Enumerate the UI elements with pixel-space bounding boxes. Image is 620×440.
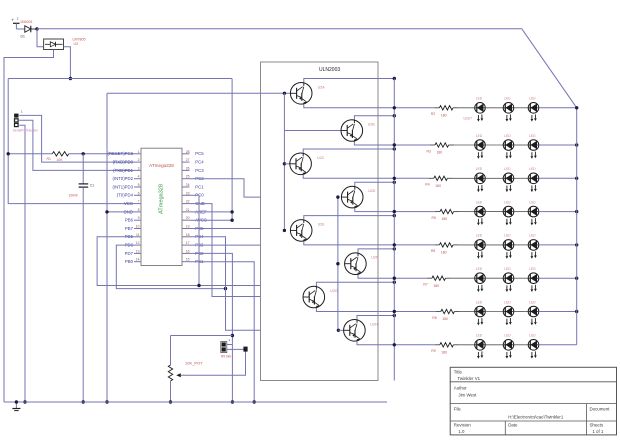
svg-text:ATmega328: ATmega328 (159, 184, 165, 214)
LED (row 4 col 3) (528, 200, 539, 225)
resistor R6 180 row5 (431, 243, 459, 255)
svg-text:8: 8 (138, 208, 140, 212)
wire reset to C1 (82, 154, 84, 184)
svg-text:10K: 10K (57, 158, 64, 162)
junction collector U2A on bus (393, 77, 396, 80)
wire pot top (171, 335, 233, 337)
junction row2 on collector bus (393, 143, 396, 146)
junction regulator output on +5V bus (69, 77, 72, 80)
transistor U2H darlington (344, 320, 378, 342)
svg-text:4: 4 (138, 175, 140, 179)
wire U2E collector to bus (304, 216, 395, 220)
svg-text:11: 11 (136, 233, 140, 237)
svg-text:LED: LED (529, 97, 536, 101)
svg-text:20: 20 (186, 216, 190, 220)
wire PB4 pin18 down to U2H base (190, 237, 344, 330)
wire U2A emitter to resistor (304, 104, 435, 108)
LED (row 7 col 3) (528, 300, 539, 325)
junction PB1 wire on ground bus (253, 400, 256, 403)
svg-text:ATmega328: ATmega328 (149, 163, 174, 168)
svg-text:10K_POT: 10K_POT (185, 361, 203, 366)
wire U2H base stub (338, 329, 343, 331)
svg-text:U2G: U2G (330, 289, 338, 293)
wire reset line (8, 153, 134, 155)
junction U2D base (336, 195, 339, 198)
wire collector bus vertical (393, 79, 395, 381)
svg-text:R2: R2 (431, 112, 435, 116)
svg-text:Author: Author (454, 386, 467, 391)
junction collector U2G on bus (393, 281, 396, 284)
svg-text:Twinkler V1: Twinkler V1 (457, 376, 480, 381)
connector SerialPortHeader (14, 110, 23, 127)
svg-text:2: 2 (138, 158, 140, 162)
LED (row 5 col 3) (528, 234, 539, 259)
svg-text:R1: R1 (47, 157, 51, 161)
svg-text:Title: Title (454, 370, 463, 375)
transistor U2G darlington (303, 286, 338, 308)
svg-text:Sheets: Sheets (590, 423, 604, 428)
wire row5 resistor to LEDs (458, 244, 474, 246)
svg-text:5: 5 (138, 183, 140, 187)
svg-text:LED: LED (476, 167, 483, 171)
potentiometer R8 10K_POT (168, 336, 203, 403)
svg-text:D1: D1 (21, 35, 25, 39)
svg-text:PC5: PC5 (195, 151, 204, 156)
svg-text:14: 14 (136, 258, 140, 262)
svg-text:C1: C1 (90, 183, 94, 187)
wire row6 to +12V bus (539, 277, 577, 279)
junction collector U2B on bus (393, 114, 396, 117)
svg-text:PC1: PC1 (195, 184, 204, 189)
wire vertical x107 U2A base / GND pin8 / ground bus (106, 93, 108, 402)
svg-text:LED: LED (529, 134, 536, 138)
wire row5 to +12V bus (539, 244, 577, 246)
svg-text:26: 26 (186, 166, 190, 170)
wire U2F emitter to resistor (358, 275, 427, 279)
transistor U2A darlington (290, 83, 325, 105)
diode D1 1N4001 (20, 20, 36, 38)
wire U2F collector to bus (358, 249, 394, 253)
transistor U2D darlington (341, 186, 375, 208)
junction PC0 on PD5 staircase (197, 284, 200, 287)
svg-text:LED: LED (476, 200, 483, 204)
wire row8 resistor to LEDs (459, 344, 475, 346)
svg-text:18: 18 (186, 233, 190, 237)
wire U2B base feed (284, 130, 341, 132)
junction ground symbol on bus (15, 400, 18, 403)
svg-text:R5: R5 (432, 216, 436, 220)
svg-text:19: 19 (186, 225, 190, 229)
junction row6 on +12V bus (575, 277, 578, 280)
LED (row 1 col 2) (503, 97, 528, 122)
svg-text:R3: R3 (427, 149, 431, 153)
svg-text:R7: R7 (423, 283, 427, 287)
svg-text:LED: LED (529, 300, 536, 304)
svg-text:1: 1 (138, 150, 140, 154)
svg-text:15: 15 (186, 258, 190, 262)
svg-text:R4: R4 (425, 183, 429, 187)
junction U2F base (336, 262, 339, 265)
wire U2D emitter to resistor (355, 208, 435, 212)
svg-text:LED: LED (504, 334, 511, 338)
junction row8 on collector bus (393, 343, 396, 346)
svg-text:Jim West: Jim West (458, 393, 477, 398)
LED (row 2 col 2) (503, 134, 528, 159)
LED (row 1 col 1) (475, 97, 504, 122)
IC U1 ATmega328 (107, 148, 207, 265)
transistor U2B darlington (341, 120, 375, 142)
svg-text:12: 12 (136, 241, 140, 245)
label SerialPortHeader (13, 129, 39, 133)
svg-text:Date: Date (508, 423, 518, 428)
svg-text:23: 23 (186, 191, 190, 195)
svg-text:10: 10 (136, 225, 140, 229)
wire U2D collector to bus (355, 182, 395, 186)
svg-text:22: 22 (186, 200, 190, 204)
svg-text:LED: LED (504, 234, 511, 238)
wire row1 to +12V bus (539, 107, 577, 109)
LED (row 3 col 2) (503, 167, 528, 192)
svg-text:180: 180 (441, 113, 447, 117)
LED (row 3 col 3) (528, 167, 539, 192)
svg-text:(RXD)PD0: (RXD)PD0 (113, 160, 134, 165)
wire +12V diagonal (522, 29, 577, 108)
svg-text:180: 180 (435, 184, 441, 188)
wire C1 to ground bus (82, 187, 84, 402)
wire row7 resistor to LEDs (460, 311, 475, 313)
svg-text:LED: LED (529, 234, 536, 238)
junction row1 on collector bus (393, 106, 396, 109)
svg-text:LED: LED (476, 334, 483, 338)
battery terminal +12V (12, 17, 20, 30)
wire regulator output to +5V bus (64, 47, 71, 79)
junction reset at +5V drop (7, 152, 10, 155)
wire U2B collector to bus (354, 116, 394, 120)
svg-text:PD7: PD7 (125, 251, 134, 256)
junction U2E base (283, 229, 286, 232)
LED (row 2 col 3) (528, 134, 539, 159)
junction collector U2D on bus (393, 181, 396, 184)
wire AREF pin21 to +5V drop (190, 211, 233, 213)
svg-text:H:\Electronics\cae\Twinkler1: H:\Electronics\cae\Twinkler1 (508, 414, 564, 419)
svg-text:U2A: U2A (318, 85, 326, 89)
svg-text:13: 13 (136, 249, 140, 253)
svg-text:VCC: VCC (124, 201, 133, 206)
wire +12V top rail (37, 28, 522, 30)
wire +5V left drop to VCC pin (8, 79, 134, 204)
junction pot on ground bus (169, 400, 172, 403)
svg-text:1 of 1: 1 of 1 (592, 429, 604, 434)
wire U2A base feed (107, 92, 290, 94)
wire ground bus bottom (4, 401, 387, 403)
wire row2 to +12V bus (539, 144, 577, 146)
svg-text:28: 28 (186, 150, 190, 154)
resistor R4 180 row3 (425, 176, 453, 188)
svg-text:LED: LED (529, 267, 536, 271)
wire U2C base stub (284, 163, 289, 165)
svg-text:ULN2003: ULN2003 (319, 67, 340, 73)
resistor R8 180 row7 (432, 309, 460, 321)
svg-text:180: 180 (442, 217, 448, 221)
junction row4 on collector bus (393, 210, 396, 213)
wire U2G emitter to resistor (316, 308, 435, 312)
LED (row 7 col 1) (475, 300, 504, 325)
wire serial pin2 to TXD/PD1 (19, 120, 134, 170)
wire row1 resistor to LEDs (458, 107, 474, 109)
wire PB1 pin15 down to ground bus (190, 262, 255, 402)
wire PC2 pin25 to U2D base (190, 179, 348, 197)
svg-text:LED7: LED7 (464, 117, 473, 121)
junction row2 on +12V bus (575, 143, 578, 146)
svg-text:9: 9 (138, 216, 140, 220)
svg-text:Revision: Revision (454, 423, 471, 428)
svg-text:(INT1)PD3: (INT1)PD3 (112, 184, 133, 189)
LED (row 5 col 1) (475, 234, 504, 259)
LED (row 6 col 3) (528, 267, 539, 292)
wire U2H collector to bus (357, 316, 394, 320)
svg-text:100nF: 100nF (69, 194, 79, 198)
svg-text:180: 180 (441, 251, 447, 255)
resistor R3 180 row2 (427, 143, 455, 155)
junction row7 on +12V bus (575, 310, 578, 313)
wire +5V horizontal bus (8, 78, 232, 80)
wire pot wiper (181, 352, 246, 376)
wire row2 resistor to LEDs (454, 144, 475, 146)
label LED7 row1 (464, 117, 473, 121)
LED (row 8 col 1) (475, 334, 504, 359)
svg-text:LED: LED (504, 134, 511, 138)
junction row3 on +12V bus (575, 177, 578, 180)
junction PB2 wire on ground bus (231, 400, 234, 403)
wire GND pin22 down to U2G base (190, 204, 304, 297)
junction +12V node (35, 27, 38, 30)
svg-text:180: 180 (442, 317, 448, 321)
svg-text:LED: LED (504, 167, 511, 171)
wire U2C emitter to resistor (303, 175, 429, 179)
svg-text:R9: R9 (431, 349, 435, 353)
svg-text:25: 25 (186, 175, 190, 179)
LED (row 5 col 2) (503, 234, 528, 259)
junction collector U2C on bus (393, 147, 396, 150)
ground symbol (12, 402, 20, 411)
wire GND pin8 stub (107, 211, 134, 213)
resistor R2 180 row1 (431, 106, 459, 118)
LED (row 8 col 2) (503, 334, 528, 359)
svg-text:U2E: U2E (318, 222, 326, 226)
LED (row 6 col 2) (503, 267, 528, 292)
wire +12V right bus vertical (576, 108, 578, 345)
wire row3 to +12V bus (539, 177, 577, 179)
junction PB2 wire at pot top (231, 334, 234, 337)
svg-text:180: 180 (437, 151, 443, 155)
junction AREF on +5V drop (230, 210, 233, 213)
svg-text:16: 16 (186, 249, 190, 253)
wire battery to diode D1 (16, 28, 24, 30)
IC U2 ULN2003 outline (261, 62, 379, 381)
junction collector U2H on bus (393, 314, 396, 317)
resistor R5 180 row4 (432, 209, 460, 221)
junction row7 on collector bus (393, 310, 396, 313)
svg-text:17: 17 (186, 241, 190, 245)
wire row7 to +12V bus (539, 311, 577, 313)
junction row5 on +12V bus (575, 243, 578, 246)
wire row4 resistor to LEDs (459, 211, 475, 213)
wire U2E emitter to resistor (304, 241, 435, 245)
LED (row 4 col 1) (475, 200, 504, 225)
wire base chain A vertical (283, 93, 285, 230)
svg-text:LED: LED (529, 167, 536, 171)
svg-text:(T0)PD4: (T0)PD4 (117, 193, 134, 198)
svg-text:21: 21 (186, 208, 190, 212)
svg-text:1.0: 1.0 (458, 429, 465, 434)
svg-text:LED: LED (476, 97, 483, 101)
junction row5 on collector bus (393, 243, 396, 246)
svg-text:PC4: PC4 (195, 160, 204, 165)
wire row6 resistor to LEDs (451, 277, 475, 279)
wire U2H emitter to resistor (357, 341, 435, 345)
svg-text:U2F: U2F (371, 256, 379, 260)
LED (row 8 col 3) (528, 334, 539, 359)
resistor R1 10K (47, 152, 69, 162)
LED (row 1 col 3) (528, 97, 539, 122)
junction U2H base (337, 329, 340, 332)
resistor R7 180 row6 (423, 276, 451, 288)
svg-text:1N4001: 1N4001 (20, 20, 33, 24)
wire serial pin3 to ground bus (19, 125, 25, 402)
junction serial ground on bus (23, 400, 26, 403)
junction GND pin8 on x107 vertical (105, 210, 108, 213)
transistor U2F darlington (345, 253, 379, 275)
svg-text:File: File (454, 407, 462, 412)
svg-text:6: 6 (138, 191, 140, 195)
wire PC0 pin23 down (190, 195, 200, 285)
transistor U2C darlington (290, 153, 325, 175)
junction U2A base (283, 92, 286, 95)
svg-text:3: 3 (138, 166, 140, 170)
wire row4 to +12V bus (539, 211, 577, 213)
junction row6 on collector bus (393, 277, 396, 280)
svg-text:SerialPortHeader: SerialPortHeader (13, 129, 39, 133)
wire PB3 pin17 to U2F base (190, 245, 345, 264)
LED (row 7 col 2) (503, 300, 528, 325)
svg-text:7: 7 (138, 200, 140, 204)
svg-text:U2D: U2D (368, 189, 376, 193)
connector ext trim pads (221, 338, 248, 359)
svg-text:R6: R6 (431, 249, 435, 253)
wire D1 junction down to regulator input (37, 29, 44, 47)
svg-text:LED: LED (504, 200, 511, 204)
wire +5V right drop to AVCC (231, 79, 233, 221)
svg-text:PB6: PB6 (125, 218, 134, 223)
LED (row 4 col 2) (503, 200, 528, 225)
wire serial pin1 to RXD/PD0 (19, 115, 134, 162)
junction collector U2F on bus (393, 247, 396, 250)
svg-text:Document: Document (590, 407, 611, 412)
svg-text:LED: LED (476, 134, 483, 138)
junction C1 on ground bus (82, 400, 85, 403)
junction AVCC on +5V drop (230, 219, 233, 222)
junction row4 on +12V bus (575, 210, 578, 213)
resistor R9 180 row8 (431, 343, 459, 355)
LED (row 6 col 1) (475, 267, 504, 292)
junction PB5 on staircase vertical (268, 227, 271, 230)
svg-text:(TXD)PD1: (TXD)PD1 (113, 168, 133, 173)
wire regulator ground to left rail (4, 50, 54, 403)
title block (450, 367, 616, 435)
wire U2B emitter to resistor (354, 141, 430, 145)
regulator U3 LM7805 (44, 38, 86, 50)
svg-text:LED: LED (529, 200, 536, 204)
svg-text:R8: R8 (432, 316, 436, 320)
svg-text:PC3: PC3 (195, 168, 204, 173)
svg-text:LED: LED (504, 267, 511, 271)
junction x107 vertical on ground bus (105, 400, 108, 403)
junction reset at C1 (82, 152, 85, 155)
svg-text:(RESET)PC6: (RESET)PC6 (107, 151, 133, 156)
wire row3 resistor to LEDs (453, 177, 475, 179)
svg-text:+: + (12, 18, 15, 23)
svg-text:U2H: U2H (370, 322, 378, 326)
wire U2A collector to bus (304, 79, 395, 83)
wire PD5 pin11 staircase to U2E base (97, 229, 290, 286)
junction collector U2E on bus (393, 214, 396, 217)
svg-text:LED: LED (504, 97, 511, 101)
svg-text:LED: LED (529, 334, 536, 338)
svg-text:LED: LED (476, 300, 483, 304)
wire row8 to +12V bus (539, 344, 577, 346)
svg-text:LED: LED (476, 267, 483, 271)
svg-text:PB7: PB7 (125, 226, 134, 231)
junction +12V bus top corner (575, 106, 578, 109)
wire PB5 pin19 to staircase (190, 228, 270, 230)
LED (row 3 col 1) (475, 167, 504, 192)
wire PB2 pin16 down to pot (190, 253, 233, 402)
wire U2C collector to bus (303, 149, 394, 153)
wire base chain B vertical (337, 197, 339, 330)
capacitor C1 100nF (69, 183, 95, 197)
junction row3 on collector bus (393, 177, 396, 180)
svg-text:U2B: U2B (368, 123, 376, 127)
svg-text:LED: LED (504, 300, 511, 304)
wire U2G collector to bus (316, 282, 394, 286)
svg-text:180: 180 (433, 284, 439, 288)
svg-text:U2C: U2C (317, 156, 325, 160)
wire AVCC pin20 to +5V drop (190, 219, 233, 221)
transistor U2E darlington (290, 220, 325, 242)
svg-text:(INT0)PD2: (INT0)PD2 (112, 176, 133, 181)
svg-text:LED: LED (476, 234, 483, 238)
junction PD6 on PB4 vertical (224, 287, 227, 290)
LED (row 2 col 1) (475, 134, 504, 159)
svg-text:U3: U3 (74, 42, 78, 46)
svg-text:180: 180 (441, 350, 447, 354)
wire PD6 pin12 staircase (116, 245, 225, 289)
svg-text:PB0: PB0 (125, 259, 134, 264)
svg-text:24: 24 (186, 183, 190, 187)
junction U2C base (283, 162, 286, 165)
svg-text:27: 27 (186, 158, 190, 162)
svg-text:R9 trim: R9 trim (221, 355, 232, 359)
